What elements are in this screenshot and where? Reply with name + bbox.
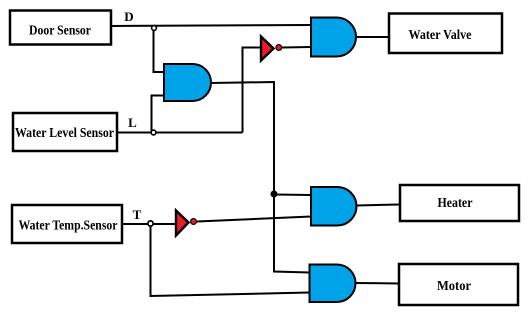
output box Heater xyxy=(400,185,519,221)
input box Water Level Sensor xyxy=(13,113,117,151)
AND gate U5 (heater) xyxy=(311,187,357,226)
wire AND U3 output to Water Valve xyxy=(356,36,389,38)
wire AND U5 output to Heater xyxy=(357,205,401,206)
output box Motor xyxy=(399,264,518,305)
NOT gate U2 output bubble xyxy=(276,45,282,51)
node T junction circle xyxy=(148,221,153,226)
svg-text:Water Temp.Sensor: Water Temp.Sensor xyxy=(19,219,118,234)
input box Water Temp.Sensor xyxy=(12,205,122,243)
AND gate U1 (door AND level) xyxy=(164,64,211,101)
wire L up to NOT gate U2 input xyxy=(243,48,262,133)
NOT gate U4 output bubble xyxy=(191,219,197,225)
wire T branch down and right to AND gate U6 bottom input xyxy=(151,226,310,296)
wire node K down to AND gate U6 top input xyxy=(274,194,310,273)
NOT gate U2 (level inverter) xyxy=(261,37,274,61)
svg-text:L: L xyxy=(128,115,137,130)
AND gate U3 (water valve) xyxy=(311,18,356,57)
svg-text:Motor: Motor xyxy=(437,279,471,294)
wire L: Water Level Sensor to corner xyxy=(117,132,243,134)
NOT gate U4 (temp inverter) xyxy=(176,211,189,236)
wire AND U6 output to Motor xyxy=(356,282,400,285)
node D junction circle xyxy=(152,26,157,31)
output box Water Valve xyxy=(389,14,502,54)
wire NOT U2 output to AND gate U3 bottom input xyxy=(282,46,311,49)
node L junction circle xyxy=(151,130,156,135)
svg-text:Door Sensor: Door Sensor xyxy=(29,24,91,39)
AND gate U6 (motor) xyxy=(310,265,356,303)
svg-text:Water Valve: Water Valve xyxy=(409,28,472,43)
wire D branch down to AND gate U1 top input xyxy=(154,30,165,72)
wire node K to AND gate U5 top input xyxy=(274,194,311,197)
svg-text:Water Level Sensor: Water Level Sensor xyxy=(15,126,114,141)
svg-text:D: D xyxy=(124,9,133,24)
wire L branch up to AND gate U1 bottom input xyxy=(152,96,165,132)
wire T: Water Temp.Sensor to NOT gate U4 input xyxy=(122,223,176,225)
wire D: Door Sensor to AND gate U3 top input xyxy=(111,25,311,26)
wire NOT U4 output to AND gate U5 bottom input xyxy=(197,217,311,222)
junction dot node K xyxy=(271,191,278,198)
wire AND U1 output to vertical bus xyxy=(211,82,274,194)
input box Door Sensor xyxy=(10,11,111,45)
svg-text:Heater: Heater xyxy=(438,196,473,211)
svg-text:T: T xyxy=(133,207,142,222)
